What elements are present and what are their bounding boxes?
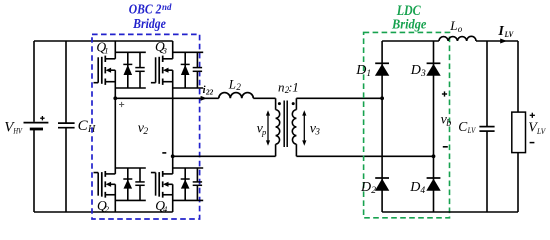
diode D2 (375, 177, 389, 179)
svg-text:nd: nd (162, 2, 172, 12)
svg-text:1: 1 (292, 80, 299, 95)
capacitor C_LV (486, 41, 488, 127)
label vp with arrow (267, 113, 269, 144)
svg-text:o: o (458, 24, 463, 34)
transformer primary winding (275, 98, 277, 109)
svg-text:LV: LV (504, 29, 514, 39)
wire LDC left leg (381, 41, 383, 212)
svg-text:22: 22 (205, 89, 214, 97)
svg-text:3: 3 (314, 126, 320, 136)
capacitor C_H (65, 41, 67, 123)
svg-text:D: D (355, 63, 366, 78)
transistor Q2 (115, 167, 146, 169)
svg-text:L: L (228, 76, 236, 91)
label v3 with arrow (303, 113, 305, 144)
label plus V_LV (530, 114, 535, 116)
transistor Q4 (173, 167, 204, 169)
load V_LV (517, 41, 519, 112)
battery V_HV (33, 41, 35, 122)
node LDC left midpoint (380, 96, 384, 100)
svg-text:2: 2 (143, 127, 148, 137)
wire LDC right leg (433, 41, 435, 212)
diode D1 (375, 62, 389, 64)
node bridge left midpoint (113, 96, 117, 100)
wire bottom rail HV side (34, 211, 173, 213)
wire left bridge leg (114, 41, 116, 59)
transformer core (283, 101, 285, 148)
wire bottom midline primary (173, 155, 276, 157)
svg-text:D: D (409, 180, 420, 195)
label minus v2 (162, 152, 166, 154)
svg-text:b: b (446, 118, 451, 129)
wire top rail LV side (382, 40, 439, 42)
wire right bridge leg (172, 41, 174, 59)
transistor Q1 (115, 51, 146, 53)
svg-text:1: 1 (366, 69, 371, 79)
svg-text:I: I (497, 24, 504, 39)
svg-text:C: C (78, 118, 89, 134)
diode D3 (427, 62, 441, 64)
svg-text:1: 1 (104, 46, 108, 56)
wire secondary top line (296, 97, 382, 99)
svg-text:Bridge: Bridge (391, 16, 426, 31)
LDC bridge dashed box (364, 32, 450, 217)
label plus vb (442, 93, 447, 95)
node bridge right midpoint (171, 154, 175, 158)
svg-text:OBC 2: OBC 2 (129, 2, 162, 17)
svg-text:L: L (449, 18, 457, 33)
transistor Q3 (173, 51, 204, 53)
svg-text:2: 2 (105, 204, 110, 214)
svg-text:Bridge: Bridge (132, 16, 166, 31)
svg-text:4: 4 (420, 186, 425, 196)
svg-text:D: D (360, 180, 371, 195)
node LDC right midpoint (432, 154, 436, 158)
svg-text:2: 2 (236, 82, 241, 92)
svg-text:LV: LV (536, 126, 547, 136)
wire secondary bottom line (296, 155, 433, 157)
inductor Lo (439, 36, 476, 41)
svg-text:2: 2 (371, 186, 376, 196)
svg-text:p: p (261, 127, 266, 137)
OBC bridge dashed box (92, 34, 200, 219)
svg-text:n: n (278, 80, 285, 95)
arrow I_LV (500, 39, 507, 44)
svg-text:HV: HV (13, 125, 24, 135)
wire top midline with i22 arrow (115, 97, 219, 99)
wire bottom rail LV side (382, 211, 518, 213)
wire top rail HV side (34, 40, 173, 42)
label minus vb (443, 146, 448, 148)
transformer polarity dots (278, 102, 281, 105)
svg-text:LV: LV (467, 126, 476, 135)
svg-text:D: D (410, 63, 421, 78)
inductor L2 (219, 93, 254, 99)
transformer secondary winding (295, 98, 297, 109)
svg-text:3: 3 (420, 69, 426, 79)
label minus V_LV (530, 142, 535, 144)
diode D4 (427, 177, 441, 179)
svg-text:3: 3 (162, 45, 167, 55)
label plus v2 (119, 104, 124, 106)
